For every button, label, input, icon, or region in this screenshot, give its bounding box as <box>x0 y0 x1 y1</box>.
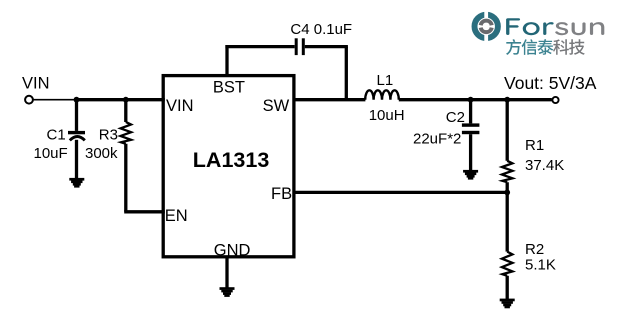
svg-text:VIN: VIN <box>166 97 194 115</box>
svg-text:Vout: 5V/3A: Vout: 5V/3A <box>504 73 597 93</box>
svg-text:EN: EN <box>165 207 188 225</box>
svg-text:FB: FB <box>271 185 292 203</box>
svg-text:10uH: 10uH <box>369 107 405 124</box>
svg-text:22uF*2: 22uF*2 <box>413 131 461 148</box>
svg-text:C1: C1 <box>47 126 66 143</box>
svg-text:LA1313: LA1313 <box>193 148 270 172</box>
svg-text:R3: R3 <box>99 126 118 143</box>
svg-text:C2: C2 <box>446 109 465 126</box>
svg-text:300k: 300k <box>85 145 118 162</box>
svg-text:BST: BST <box>213 78 245 96</box>
svg-text:R2: R2 <box>525 241 544 258</box>
svg-text:R1: R1 <box>525 137 544 154</box>
svg-text:10uF: 10uF <box>34 145 68 162</box>
svg-text:SW: SW <box>263 97 290 115</box>
svg-text:5.1K: 5.1K <box>525 256 556 273</box>
svg-text:GND: GND <box>214 242 251 260</box>
svg-text:VIN: VIN <box>22 74 50 92</box>
svg-text:37.4K: 37.4K <box>525 157 564 174</box>
svg-text:C4 0.1uF: C4 0.1uF <box>290 21 352 38</box>
svg-text:L1: L1 <box>377 72 394 89</box>
